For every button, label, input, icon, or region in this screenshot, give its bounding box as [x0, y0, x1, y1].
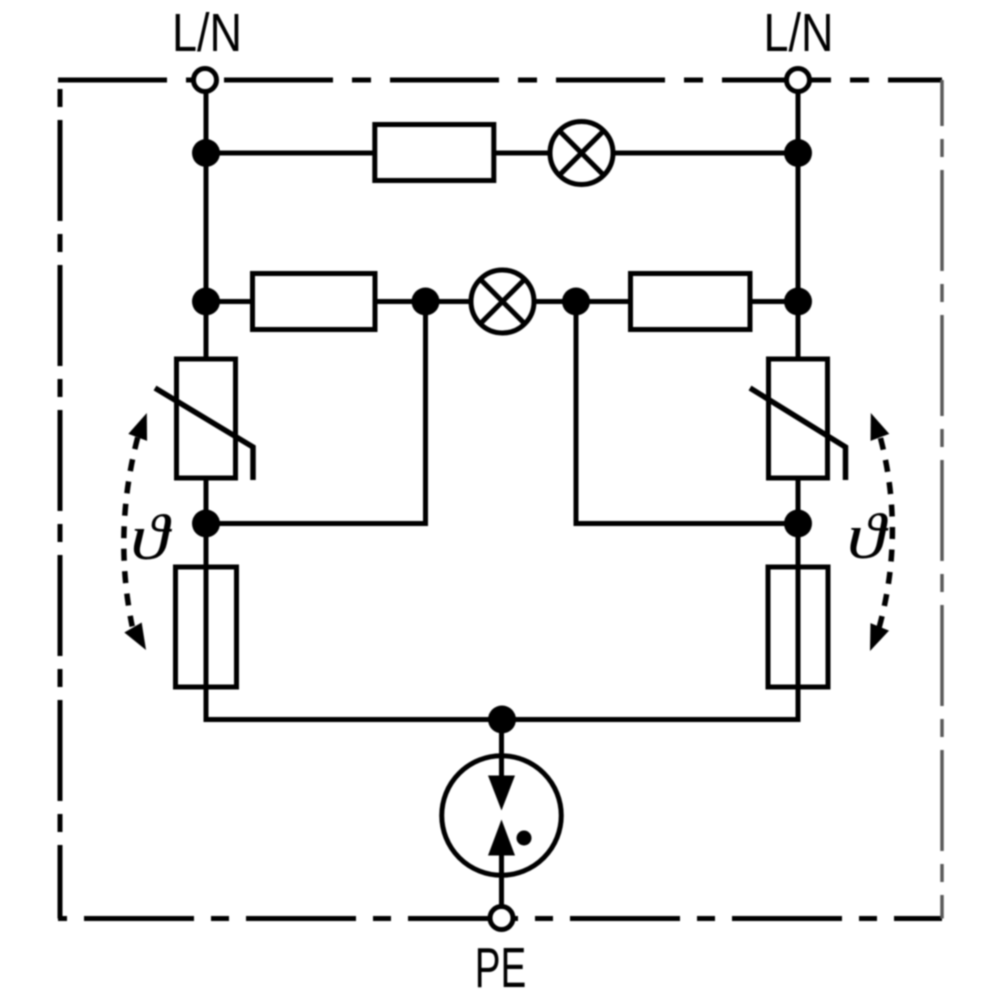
enclosure frame right edge (dash-dot) [940, 80, 944, 919]
junction dot row2 left [192, 288, 220, 316]
junction dot right varistor output [784, 510, 812, 538]
wire row2 right segment [750, 299, 798, 304]
resistor R3 (second row right) [631, 274, 751, 330]
wire row2 lamp to node B [533, 299, 632, 304]
wire right vertical (varistor to fuse through fuse box) [796, 479, 801, 690]
wire bottom bus (fuse bottoms to centre) [206, 688, 798, 720]
wire row1 middle segment (resistor to lamp) [494, 151, 552, 156]
svg-text:L/N: L/N [172, 3, 242, 63]
wire left vertical (varistor to fuse through fuse box) [204, 479, 209, 690]
wire row1 right segment (lamp to right line) [612, 151, 798, 156]
svg-text:L/N: L/N [764, 3, 834, 63]
label theta right [847, 500, 889, 572]
svg-text:PE: PE [475, 936, 527, 1000]
resistor R1 (top monitoring branch) [375, 125, 494, 181]
resistor R2 (second row left) [253, 274, 376, 330]
junction dot left varistor output [192, 510, 220, 538]
wire node A drop to left junction [206, 302, 426, 524]
thermal disconnector F2 (right fuse box) [768, 567, 828, 687]
terminal PE (open circle) [490, 907, 513, 930]
indicator lamp H1 (top row) [550, 122, 613, 185]
thermal trip arc right (dashed) [861, 409, 893, 654]
terminal L/N right (open circle) [787, 69, 810, 92]
wire row2 left segment [206, 299, 254, 304]
junction dot row1 right [784, 139, 812, 167]
varistor RV1 (left) [155, 359, 253, 480]
junction dot node A [412, 288, 440, 316]
wire left main vertical (terminal to varistor) [204, 92, 209, 358]
varistor RV2 (right) [750, 359, 846, 480]
wire row1 left segment [206, 151, 374, 156]
junction dot row1 left [192, 139, 220, 167]
gas discharge tube / spark gap to PE [442, 718, 562, 906]
thermal trip arc left (dashed) [124, 409, 156, 655]
enclosure frame left edge (dash-dot) [58, 80, 63, 919]
label theta left [130, 501, 172, 573]
enclosure frame top edge (dash-dot) [58, 78, 942, 83]
wire right main vertical (terminal to varistor) [796, 92, 801, 358]
terminal L/N left (open circle) [194, 69, 217, 92]
svg-text:ϑ: ϑ [847, 500, 889, 572]
thermal disconnector F1 (left fuse box) [176, 567, 237, 687]
junction dot row2 right [784, 288, 812, 316]
wire node B drop to right junction [576, 302, 798, 524]
wire row2 resistor to node A [376, 299, 472, 304]
junction dot node B [562, 288, 590, 316]
indicator lamp H2 (second row) [471, 270, 534, 333]
enclosure frame bottom edge (dash-dot) [58, 916, 942, 921]
junction dot bottom bus centre [488, 706, 516, 734]
svg-text:ϑ: ϑ [130, 501, 172, 573]
